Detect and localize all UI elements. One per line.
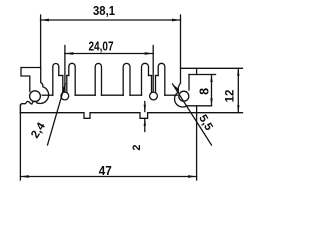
profile right inner stem bbox=[188, 75, 190, 91]
dimension line 8 bbox=[211, 75, 213, 106]
svg-text:2: 2 bbox=[131, 144, 143, 150]
right keyhole circle bbox=[150, 92, 158, 100]
fin 3 bbox=[95, 63, 101, 95]
dim text 12 (rotated) bbox=[224, 90, 236, 103]
svg-text:47: 47 bbox=[99, 164, 112, 178]
extension line top of 12 (flange top continued) bbox=[181, 67, 243, 69]
left keyhole slot walls bbox=[62, 76, 64, 93]
fin 6 bbox=[158, 63, 165, 95]
left keyhole slot shoulders bbox=[59, 75, 63, 77]
dimension line 47 bbox=[20, 176, 196, 178]
dimension line 12 bbox=[237, 68, 239, 112]
arrow down 12 bbox=[237, 105, 239, 113]
leader line 2,4 bbox=[48, 84, 66, 146]
dim text 2,4 (rotated leader label) bbox=[29, 120, 48, 140]
fin 5 bbox=[142, 63, 149, 95]
right keyhole slot walls bbox=[151, 76, 153, 93]
svg-text:24,07: 24,07 bbox=[89, 40, 114, 54]
svg-text:2,4: 2,4 bbox=[29, 120, 48, 140]
svg-text:38,1: 38,1 bbox=[93, 4, 115, 18]
svg-text:5,5: 5,5 bbox=[196, 113, 215, 133]
profile left clip circle bbox=[30, 91, 41, 102]
profile right hook outer bbox=[175, 83, 187, 107]
arrow right 38,1 bbox=[172, 19, 181, 22]
dim text 47 bbox=[99, 164, 112, 178]
extension line right of 24,07 bbox=[152, 46, 154, 92]
profile right edge upper bbox=[196, 68, 198, 74]
dim text 5,5 (rotated leader label) bbox=[196, 113, 215, 133]
profile base bottom edge with two feet pads bbox=[20, 113, 196, 119]
extension line right of 47 (profile right edge continued) bbox=[196, 106, 198, 180]
arrow up 12 bbox=[237, 68, 239, 76]
dim text 2 (rotated) bbox=[131, 144, 143, 150]
dim text 24,07 bbox=[89, 40, 114, 54]
right keyhole slot shoulders bbox=[149, 75, 152, 77]
arrow right 24,07 bbox=[145, 52, 154, 55]
dim text 8 (rotated) bbox=[198, 88, 212, 95]
svg-text:8: 8 bbox=[198, 88, 212, 95]
leader line 5,5 bbox=[173, 84, 212, 145]
arrow left 24,07 bbox=[65, 52, 74, 55]
left keyhole circle bbox=[61, 92, 69, 100]
profile left hook outer wall and lip bbox=[37, 68, 48, 104]
leader arrow 2,4 bbox=[62, 84, 66, 93]
arrow left 38,1 bbox=[41, 19, 50, 22]
fin 1 bbox=[53, 64, 59, 96]
extension line left of 47 (base left edge continued) bbox=[19, 105, 21, 180]
arrow left 47 bbox=[20, 175, 29, 178]
profile right clip circle bbox=[179, 91, 189, 101]
extension line left of 24,07 bbox=[64, 46, 66, 92]
profile left clip tab bbox=[21, 68, 41, 92]
dimension line 38,1 bbox=[41, 19, 181, 21]
extension line bottom of 12 (base bottom continued) bbox=[197, 112, 243, 114]
leader arrow 5,5 bbox=[173, 84, 180, 92]
extension line bottom of 8 (flange bottom continued) bbox=[187, 105, 212, 107]
arrow below for dim 2 bbox=[144, 119, 146, 132]
profile left base top with bump bbox=[20, 101, 37, 112]
arrow down 8 bbox=[210, 98, 212, 106]
arrow up 8 bbox=[210, 75, 212, 83]
fin 2 bbox=[69, 63, 75, 95]
extension line left of 38,1 bbox=[40, 15, 42, 68]
fin 4 bbox=[123, 63, 130, 95]
dim text 38,1 bbox=[93, 4, 115, 18]
extension line top of 8 (step of flange continued) bbox=[189, 74, 216, 76]
fin floor segments y=95.5 bbox=[42, 94, 53, 96]
arrow above for dim 2 bbox=[144, 102, 146, 112]
arrow right 47 bbox=[188, 175, 197, 178]
svg-text:12: 12 bbox=[224, 90, 236, 103]
dimension line 24,07 bbox=[65, 53, 153, 55]
extension line right of 38,1 (also right wall of profile) bbox=[180, 15, 182, 83]
